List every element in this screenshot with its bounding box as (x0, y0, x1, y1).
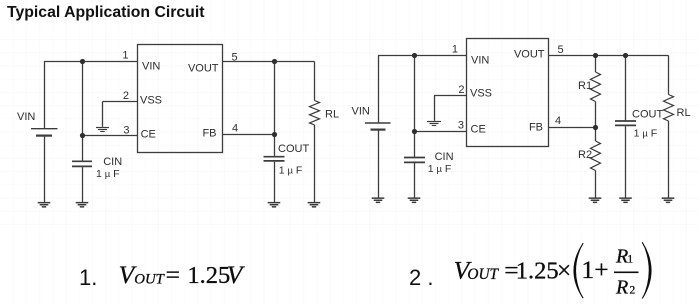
svg-text:VOUT: VOUT (188, 63, 219, 75)
svg-text:5: 5 (232, 52, 238, 64)
svg-text:1 µ F: 1 µ F (279, 165, 303, 177)
wire CIN column vertical (82, 61, 84, 161)
svg-text:1: 1 (452, 44, 458, 56)
wire COUT below (right) (625, 126, 627, 197)
svg-text:1.25: 1.25 (516, 257, 559, 284)
svg-text:+: + (594, 255, 608, 284)
svg-text:1 µ F: 1 µ F (96, 168, 120, 180)
svg-text:1.: 1. (79, 265, 97, 290)
svg-text:OUT: OUT (467, 266, 499, 283)
svg-text:VIN: VIN (17, 111, 35, 123)
resistor R1 zigzag (591, 72, 601, 102)
battery B1 (VIN source) (31, 128, 58, 130)
wire pin4 FB horizontal (223, 134, 275, 136)
formula 1: VOUT = 1.25V (119, 260, 246, 289)
svg-text:2: 2 (123, 90, 129, 102)
wire RL column top (right) (668, 56, 670, 95)
wire pin3 CE horizontal (right) (414, 131, 467, 133)
svg-text:VSS: VSS (470, 88, 492, 100)
ground GND battery (right) (372, 197, 385, 203)
svg-text:OUT: OUT (134, 271, 165, 287)
svg-text:=: = (166, 260, 180, 289)
svg-text:2: 2 (458, 84, 464, 96)
svg-text:1: 1 (581, 255, 594, 284)
svg-text:1 µ F: 1 µ F (634, 128, 658, 140)
wire R2 bottom (595, 171, 597, 198)
ground GND battery (left) (38, 202, 51, 208)
svg-text:FB: FB (202, 128, 216, 140)
wire pin4 FB horizontal (right) (549, 127, 596, 129)
svg-text:VOUT: VOUT (514, 49, 545, 61)
ground GND VSS (right, earth style) (427, 122, 441, 126)
wire CIN column vertical (right) (414, 56, 416, 157)
wire pin1 VIN horizontal (right) (378, 55, 467, 57)
wire RL column top (314, 62, 316, 101)
wire R1 bottom to FB (595, 102, 597, 128)
svg-text:VSS: VSS (140, 95, 162, 107)
wire pin1 VIN horizontal (44, 61, 138, 63)
svg-text:VIN: VIN (142, 61, 160, 73)
svg-text:5: 5 (558, 44, 564, 56)
big paren right (642, 242, 651, 298)
svg-text:R: R (615, 246, 628, 268)
svg-text:3: 3 (458, 120, 464, 132)
resistor RL zigzag (right) (664, 95, 674, 121)
wire VIN source vertical top (44, 61, 46, 128)
svg-text:CIN: CIN (103, 156, 122, 168)
capacitor COUT plates (right) (615, 120, 636, 122)
resistor RL zigzag (left) (310, 101, 320, 125)
wire VSS ground stem (right) (434, 96, 436, 121)
wire COUT column vertical (right) (625, 56, 627, 121)
ground GND RL (right) (662, 197, 675, 203)
formula 2: VOUT = 1.25 x (1 + R1/R2) (454, 242, 651, 298)
svg-text:R1: R1 (578, 80, 592, 92)
wire RL column bottom (right) (668, 121, 670, 198)
wire VIN source vertical top (right) (378, 56, 380, 123)
svg-text:Typical Application Circuit: Typical Application Circuit (7, 4, 205, 21)
svg-text:VIN: VIN (352, 106, 370, 118)
ground GND R2 (589, 197, 602, 203)
svg-text:CIN: CIN (435, 151, 454, 163)
capacitor CIN plates (72, 160, 92, 162)
ground GND CIN (left) (76, 202, 89, 208)
svg-text:RL: RL (677, 107, 691, 119)
op-amp U1 (regulator IC box, left) (138, 45, 223, 153)
labels left circuit (17, 50, 339, 181)
svg-text:CE: CE (141, 129, 156, 141)
svg-text:2: 2 (630, 284, 636, 296)
resistor R2 zigzag (591, 141, 601, 171)
wire pin5 VOUT horizontal (223, 61, 315, 63)
svg-text:4: 4 (555, 115, 561, 127)
svg-text:R2: R2 (578, 149, 592, 161)
svg-text:VIN: VIN (471, 55, 489, 67)
node junction dots (left) (80, 59, 277, 138)
svg-text:FB: FB (529, 122, 543, 134)
wire CIN below (right) (414, 163, 416, 198)
battery B2 (VIN source right) (365, 122, 391, 124)
svg-text:1.25: 1.25 (187, 262, 230, 289)
svg-text:CE: CE (471, 124, 486, 136)
svg-text:R: R (615, 276, 628, 298)
wire COUT column vertical (274, 62, 276, 156)
svg-text:3: 3 (123, 125, 129, 137)
wire R2 top (595, 128, 597, 142)
svg-text:2 .: 2 . (409, 265, 433, 290)
wire R1 top (595, 56, 597, 73)
wire COUT below (274, 162, 276, 202)
svg-text:1 µ F: 1 µ F (428, 163, 452, 175)
op-amp U2 (regulator IC box, right) (467, 39, 549, 147)
wire RL column bottom (314, 125, 316, 202)
wire battery to ground (right) (378, 130, 380, 198)
svg-text:COUT: COUT (632, 108, 663, 120)
wire pin5 VOUT horizontal (right) (549, 55, 669, 57)
labels right circuit (352, 44, 691, 176)
wire pin3 CE horizontal (82, 135, 138, 137)
ground GND COUT (right) (619, 197, 632, 203)
svg-text:1: 1 (122, 50, 128, 62)
wire battery to ground (44, 136, 46, 202)
big paren left (574, 243, 583, 298)
svg-text:1: 1 (627, 254, 633, 266)
svg-text:COUT: COUT (278, 143, 309, 155)
wire pin2 VSS horizontal (right) (434, 95, 467, 97)
wire VSS ground stem (102, 102, 104, 127)
node junction dots (right) (412, 53, 628, 134)
ground GND RL (left) (308, 202, 321, 208)
ground GND VSS (left, earth style) (96, 128, 109, 132)
ground GND COUT (left) (268, 202, 281, 208)
wire pin2 VSS horizontal (103, 101, 138, 103)
svg-text:RL: RL (325, 109, 339, 121)
capacitor CIN plates (right) (404, 157, 425, 159)
svg-text:4: 4 (232, 123, 238, 135)
capacitor COUT plates (264, 156, 285, 158)
svg-text:×: × (557, 255, 571, 284)
wire CIN below (82, 167, 84, 202)
ground GND CIN (right) (408, 197, 421, 203)
